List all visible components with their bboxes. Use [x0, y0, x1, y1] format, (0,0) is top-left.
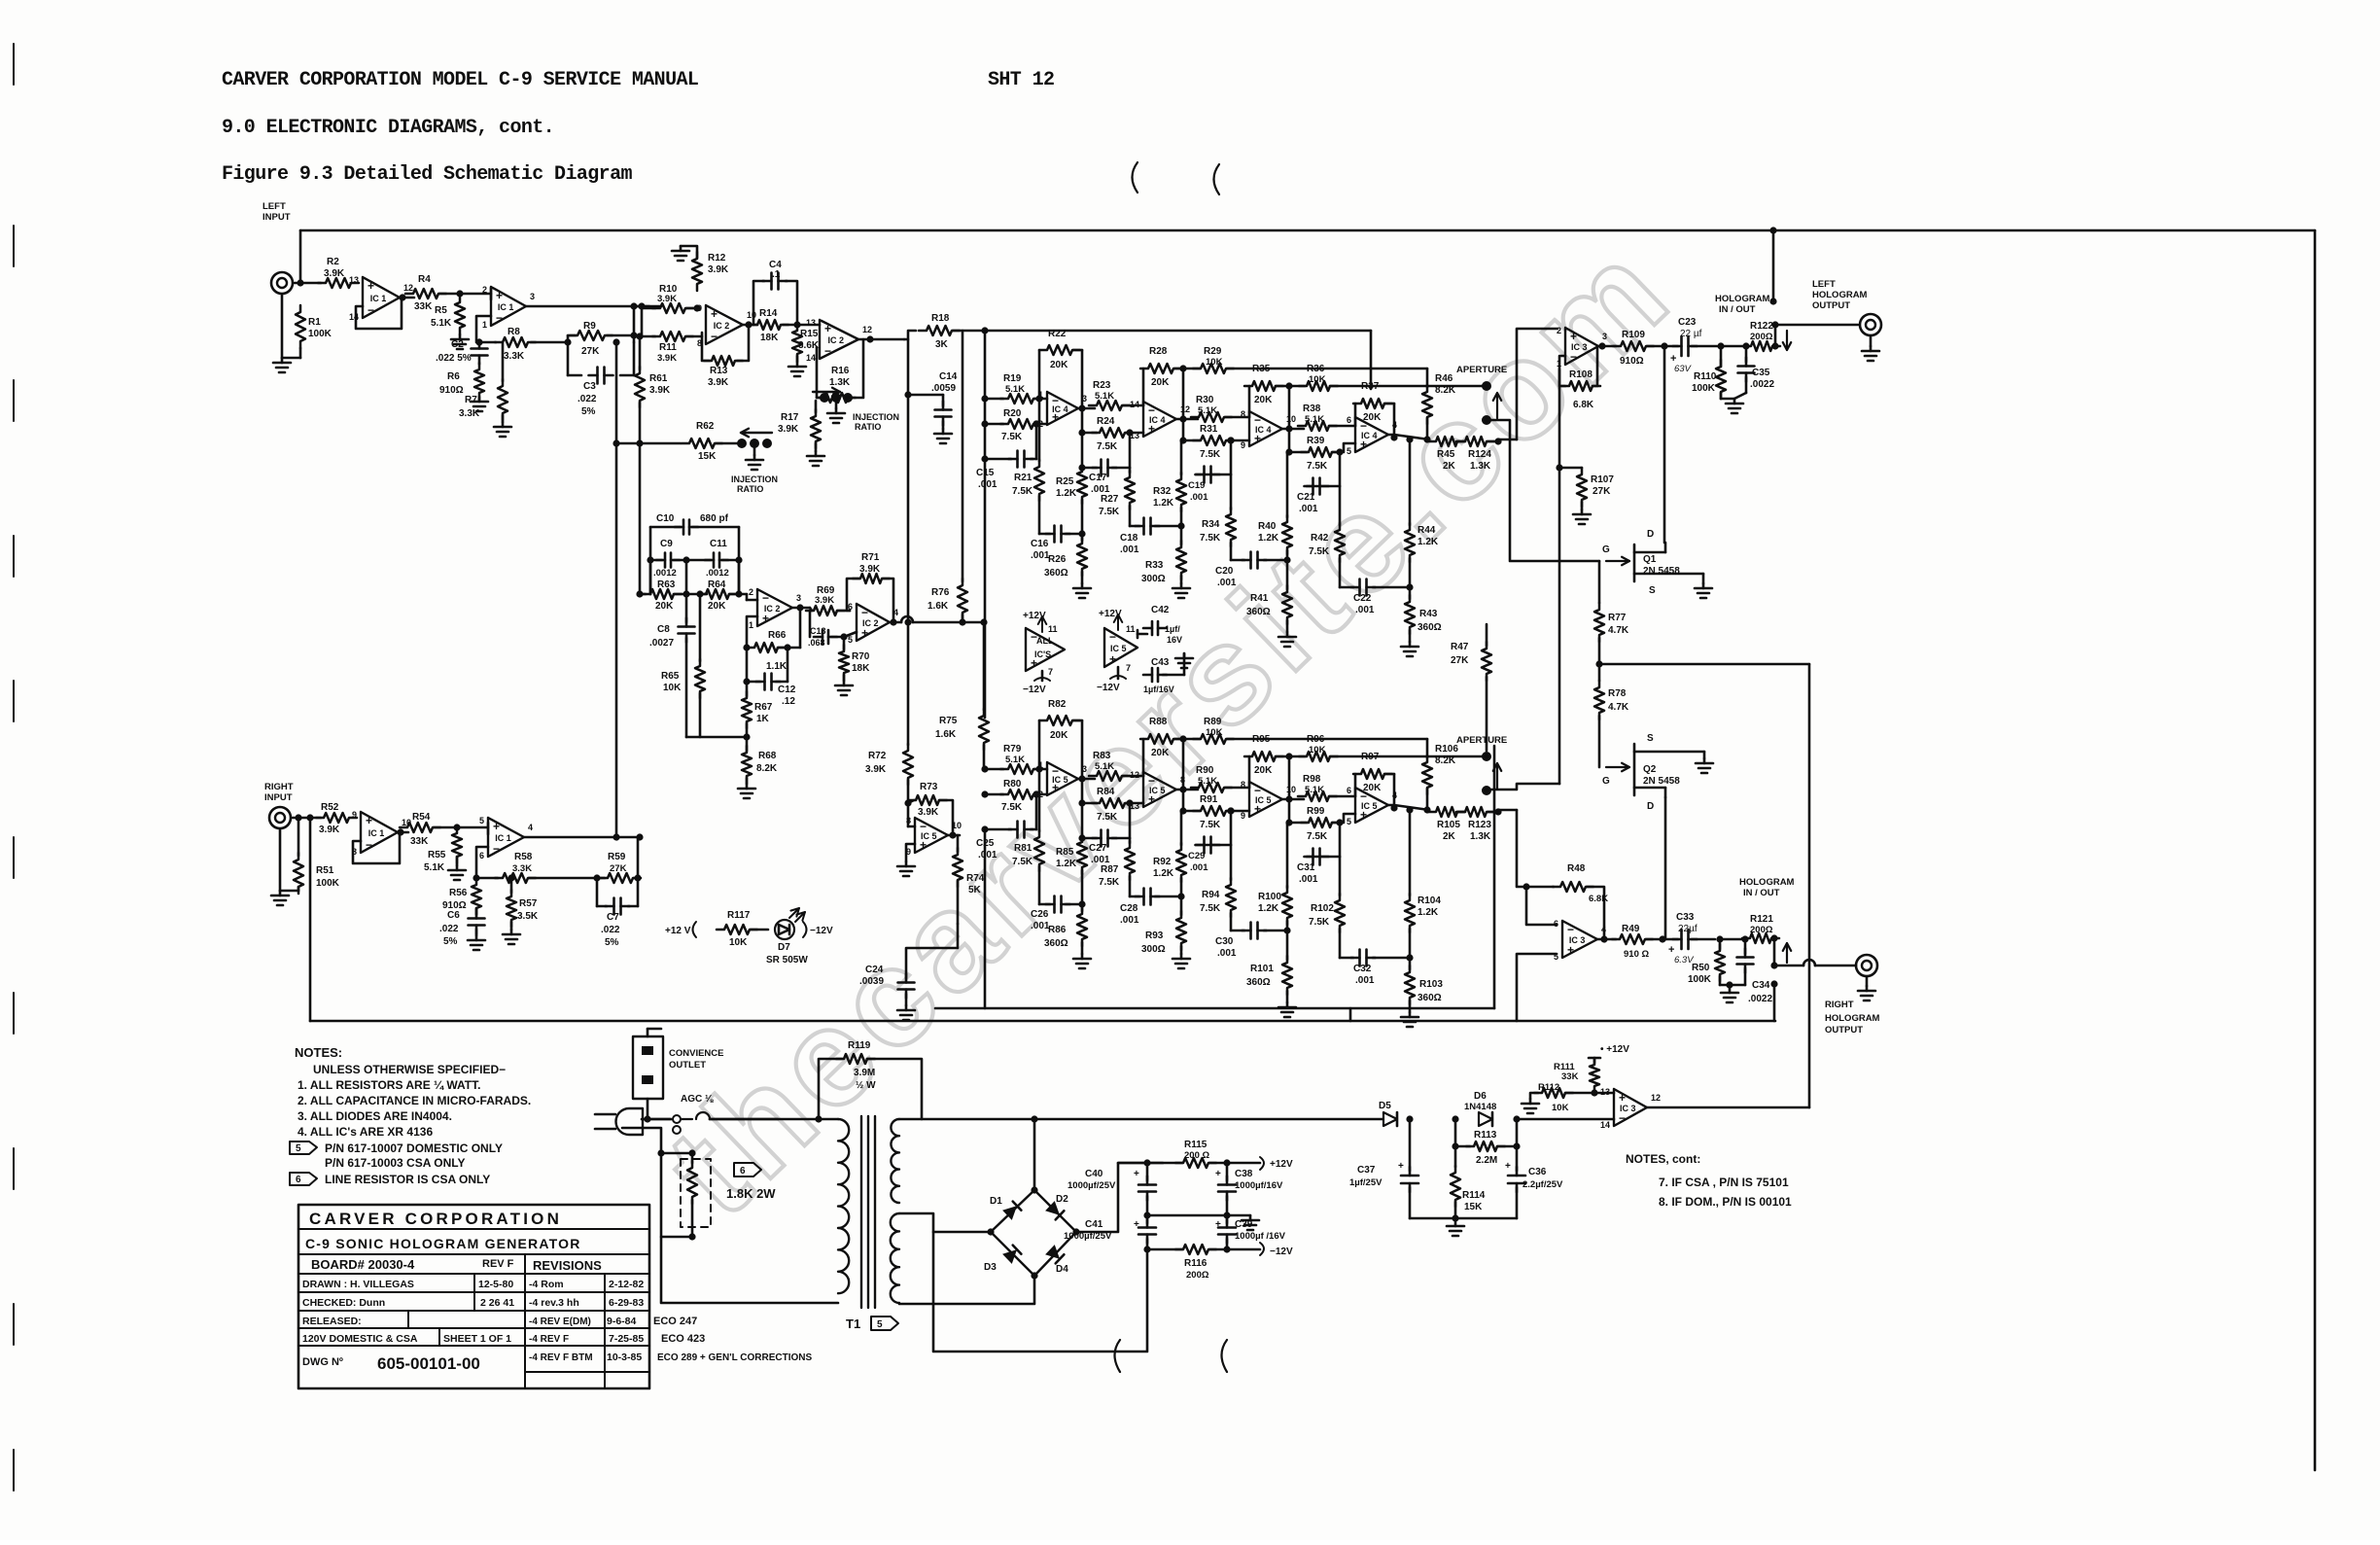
resistor R65 10K — [661, 590, 705, 737]
title block table — [298, 1205, 649, 1388]
resistor R85 1.2K — [1056, 803, 1087, 908]
svg-text:300Ω: 300Ω — [1141, 944, 1166, 955]
svg-text:.001: .001 — [1031, 550, 1050, 561]
svg-text:D1: D1 — [990, 1196, 1002, 1207]
svg-text:1.2K: 1.2K — [1258, 533, 1279, 544]
svg-text:5.1K: 5.1K — [431, 318, 452, 329]
svg-text:D6: D6 — [1474, 1091, 1487, 1102]
svg-text:R37: R37 — [1361, 381, 1380, 392]
svg-text:IC 4: IC 4 — [1052, 404, 1068, 414]
svg-text:1. ALL RESISTORS ARE ¼ WATT.: 1. ALL RESISTORS ARE ¼ WATT. — [297, 1078, 480, 1092]
resistor R67 1K — [742, 682, 773, 737]
svg-text:R121: R121 — [1750, 914, 1773, 925]
svg-text:LEFT: LEFT — [262, 201, 286, 212]
svg-text:.001: .001 — [1299, 504, 1318, 514]
svg-text:910 Ω: 910 Ω — [1624, 949, 1649, 960]
node R121 out — [1770, 934, 1791, 968]
label +12V D7 row — [665, 922, 696, 937]
svg-text:12: 12 — [1130, 770, 1139, 780]
ground R110/C35 — [1721, 393, 1746, 413]
svg-text:IC 2: IC 2 — [828, 335, 845, 345]
svg-text:R49: R49 — [1622, 924, 1640, 934]
wire mid rail — [1143, 1211, 1250, 1218]
resistor R33 300 — [1141, 541, 1186, 584]
svg-text:R103: R103 — [1419, 979, 1443, 990]
wire right input bottom rail — [310, 818, 1775, 1021]
svg-text:R73: R73 — [920, 782, 938, 792]
svg-text:1N4148: 1N4148 — [1464, 1102, 1496, 1112]
resistor R87 7.5K — [1099, 838, 1135, 896]
resistor R73 3.9K feedback — [908, 782, 953, 831]
svg-text:3.9K: 3.9K — [918, 807, 939, 818]
node D6 right — [1513, 1115, 1520, 1122]
svg-text:IC 5: IC 5 — [1110, 644, 1127, 653]
notes line P/N CSA — [325, 1156, 466, 1170]
svg-text:P/N 617-10003 CSA ONLY: P/N 617-10003 CSA ONLY — [325, 1156, 466, 1170]
svg-text:11: 11 — [1048, 624, 1058, 634]
svg-text:HOLOGRAM: HOLOGRAM — [1715, 294, 1770, 304]
svg-text:R101: R101 — [1250, 964, 1274, 974]
svg-text:9.0 ELECTRONIC DIAGRAMS, cont.: 9.0 ELECTRONIC DIAGRAMS, cont. — [222, 117, 554, 139]
node C33/R50 — [1716, 935, 1723, 942]
svg-text:.0012: .0012 — [653, 568, 677, 579]
node R111/R112 — [1591, 1089, 1614, 1096]
svg-text:−: − — [762, 591, 769, 605]
svg-text:3: 3 — [530, 292, 535, 301]
svg-text:C12: C12 — [778, 685, 796, 695]
svg-text:8.2K: 8.2K — [756, 763, 778, 774]
svg-text:13: 13 — [1600, 1087, 1610, 1097]
svg-text:120V DOMESTIC & CSA: 120V DOMESTIC & CSA — [302, 1333, 418, 1345]
resistor R113 2.2M — [1452, 1119, 1520, 1166]
svg-text:4.7K: 4.7K — [1608, 702, 1629, 713]
svg-text:IC 4: IC 4 — [1149, 415, 1166, 425]
op-amp IC1 pin10 stage (right) — [352, 810, 411, 857]
diode D6 1N4148 — [1464, 1091, 1496, 1126]
resistor R68 8.2K — [742, 737, 778, 784]
ground R57 — [503, 930, 520, 944]
wire feedback to right vertical — [1599, 664, 1809, 1107]
svg-text:R15: R15 — [800, 329, 819, 339]
svg-text:C42: C42 — [1151, 605, 1170, 615]
svg-text:7.5K: 7.5K — [1307, 831, 1328, 842]
svg-text:5%: 5% — [443, 936, 458, 947]
svg-text:−: − — [366, 838, 372, 852]
wire cross line x634 — [612, 338, 619, 838]
svg-text:12: 12 — [403, 283, 413, 293]
svg-text:C22: C22 — [1353, 593, 1372, 604]
svg-text:R7: R7 — [465, 395, 477, 405]
svg-text:13: 13 — [349, 275, 359, 285]
op-amp IC 4 stage 2 left bank — [1130, 400, 1190, 440]
resistor R26 360 — [1044, 534, 1087, 583]
node filter input right bank — [981, 765, 988, 832]
svg-text:RATIO: RATIO — [737, 484, 763, 494]
node D6 left — [1452, 1115, 1458, 1122]
svg-text:R81: R81 — [1014, 843, 1032, 854]
svg-text:REV F: REV F — [482, 1258, 514, 1270]
capacitor C33 22uf 6.3V — [1668, 912, 1715, 966]
svg-text:R48: R48 — [1567, 863, 1586, 874]
svg-text:R74: R74 — [966, 873, 985, 884]
svg-text:R62: R62 — [696, 421, 715, 432]
svg-text:R14: R14 — [759, 308, 778, 319]
svg-text:2-12-82: 2-12-82 — [609, 1279, 644, 1290]
svg-text:7.5K: 7.5K — [1099, 507, 1120, 517]
resistor R8 3.3K — [479, 327, 536, 362]
svg-text:T1: T1 — [846, 1317, 860, 1331]
wire hologram in/out drop — [1769, 227, 1776, 301]
svg-text:−: − — [1567, 923, 1574, 936]
svg-text:20K: 20K — [1050, 730, 1068, 741]
svg-text:5.1K: 5.1K — [1005, 755, 1025, 765]
svg-text:+: + — [1134, 1219, 1139, 1230]
svg-text:C18: C18 — [1120, 533, 1138, 544]
resistor R74 5K — [953, 835, 985, 924]
svg-text:½ W: ½ W — [856, 1080, 876, 1091]
wire IC3 power out — [1647, 1106, 1809, 1109]
ground R7 — [494, 422, 511, 437]
svg-text:33K: 33K — [410, 836, 429, 847]
svg-text:RELEASED:: RELEASED: — [302, 1316, 362, 1327]
svg-text:R51: R51 — [316, 865, 334, 876]
resistor R24 7.5K — [1078, 416, 1143, 452]
svg-text:−: − — [496, 311, 503, 325]
svg-text:R52: R52 — [321, 802, 339, 813]
ground R17 — [807, 451, 824, 466]
ground R12 via stub — [672, 246, 697, 261]
svg-text:REVISIONS: REVISIONS — [533, 1258, 602, 1273]
svg-text:C35: C35 — [1752, 368, 1770, 378]
svg-text:18K: 18K — [760, 333, 779, 343]
svg-text:R11: R11 — [659, 342, 677, 353]
resistor R78 4.7K — [1594, 664, 1629, 767]
svg-text:R116: R116 — [1184, 1258, 1207, 1269]
op-amp IC1 pin3 stage (left) — [482, 285, 535, 330]
capacitor C15 .001 — [976, 420, 1040, 490]
svg-text:C26: C26 — [1031, 909, 1049, 920]
svg-text:5K: 5K — [968, 885, 982, 895]
injection ratio switch upper — [813, 388, 899, 432]
capacitor C36 2.2uf/25V — [1505, 1146, 1563, 1218]
svg-text:20K: 20K — [1050, 360, 1068, 370]
resistor R50 100K — [1688, 939, 1730, 985]
capacitor C26 .001 — [1031, 896, 1082, 932]
svg-text:R76: R76 — [931, 587, 950, 598]
svg-text:3K: 3K — [935, 339, 949, 350]
resistor R105 2K — [1428, 807, 1465, 842]
wire R72 node to IC5 pin8 — [908, 803, 915, 826]
svg-text:+: + — [493, 820, 500, 833]
svg-text:14: 14 — [1130, 400, 1139, 409]
capacitor C38 1000uf/16V — [1215, 1163, 1283, 1215]
capacitor C42 1uf/16V — [1137, 605, 1182, 645]
op-amp IC 5 stage 1 right bank — [1038, 760, 1087, 799]
svg-text:7.5K: 7.5K — [1001, 802, 1023, 813]
svg-text:R110: R110 — [1694, 371, 1717, 382]
svg-text:1.3K: 1.3K — [1470, 461, 1491, 472]
svg-text:D: D — [1647, 801, 1654, 812]
svg-text:9: 9 — [1241, 440, 1245, 450]
svg-text:.001: .001 — [1190, 862, 1208, 873]
svg-text:C32: C32 — [1353, 964, 1372, 974]
svg-text:15K: 15K — [698, 451, 717, 462]
svg-text:4.7K: 4.7K — [1608, 625, 1629, 636]
svg-text:1.2K: 1.2K — [1153, 868, 1174, 879]
svg-text:8.2K: 8.2K — [1435, 755, 1456, 766]
svg-text:C33: C33 — [1676, 912, 1695, 923]
ground R26 — [1073, 583, 1091, 598]
title text BOARD# REVISIONS — [311, 1257, 602, 1273]
resistor R41 360 — [1246, 560, 1292, 632]
svg-text:1: 1 — [482, 320, 487, 330]
node RIGHT INPUT label — [264, 782, 294, 803]
svg-text:R20: R20 — [1003, 408, 1022, 419]
resistor R86 360 — [1044, 904, 1087, 954]
svg-text:3.9K: 3.9K — [708, 377, 729, 388]
svg-text:100K: 100K — [1688, 974, 1712, 985]
svg-text:1000µf/25V: 1000µf/25V — [1064, 1231, 1112, 1242]
capacitor C23 22uf 63V — [1670, 317, 1717, 374]
svg-text:200Ω: 200Ω — [1750, 925, 1773, 935]
svg-text:IC 3: IC 3 — [1620, 1104, 1636, 1113]
eco 423 note — [661, 1333, 705, 1345]
svg-text:R39: R39 — [1307, 436, 1325, 446]
resistor R21 7.5K — [1012, 399, 1044, 534]
wire pin1 column down — [1491, 369, 1559, 790]
svg-text:C21: C21 — [1297, 492, 1315, 503]
svg-text:−12V: −12V — [1270, 1247, 1293, 1257]
svg-text:7.5K: 7.5K — [1309, 917, 1330, 928]
resistor R40 1.2K — [1258, 452, 1292, 560]
wire right bank s1 out — [1078, 775, 1095, 803]
svg-text:+: + — [711, 307, 717, 321]
svg-text:D: D — [1647, 529, 1654, 540]
svg-text:CARVER CORPORATION: CARVER CORPORATION — [309, 1210, 562, 1228]
capacitor C22 .001 — [1340, 579, 1414, 616]
svg-text:R29: R29 — [1204, 346, 1222, 357]
svg-text:C10: C10 — [656, 513, 675, 524]
capacitor C3 .022 5% — [568, 342, 634, 417]
svg-text:15K: 15K — [1464, 1202, 1483, 1212]
svg-text:C3: C3 — [583, 381, 596, 392]
svg-text:3.9M: 3.9M — [854, 1068, 875, 1078]
svg-text:20K: 20K — [655, 601, 674, 612]
node R4/R5 — [456, 290, 463, 297]
svg-text:G: G — [1602, 544, 1610, 555]
resistor R109 910 — [1613, 330, 1678, 367]
svg-text:R19: R19 — [1003, 373, 1022, 384]
wire left bank s3 out — [1282, 386, 1304, 456]
svg-text:IC 1: IC 1 — [495, 833, 511, 843]
node hologram in/out left — [1715, 294, 1777, 315]
resistor R97 20K feedback — [1353, 752, 1394, 805]
svg-text:.068: .068 — [808, 638, 825, 648]
svg-text:R72: R72 — [868, 751, 887, 761]
svg-text:910Ω: 910Ω — [439, 385, 464, 396]
svg-text:3: 3 — [796, 593, 801, 603]
right page border wire — [2314, 230, 2317, 1470]
svg-text:10-3-85: 10-3-85 — [607, 1352, 642, 1363]
ground R86 — [1073, 954, 1091, 968]
resistor R95 20K feedback — [1244, 734, 1289, 788]
resistor R91 7.5K — [1183, 794, 1249, 830]
ground R50/C34 — [1721, 988, 1738, 1002]
svg-text:C20: C20 — [1215, 566, 1234, 577]
svg-text:3.3K: 3.3K — [512, 863, 532, 874]
notes line 1 resistors — [297, 1078, 480, 1092]
svg-text:3.9K: 3.9K — [778, 424, 799, 435]
ground power rail — [1447, 1221, 1464, 1236]
capacitor C29 .001 — [1188, 807, 1235, 873]
svg-text:5.1K: 5.1K — [1305, 414, 1324, 425]
svg-text:1.2K: 1.2K — [1056, 859, 1077, 869]
svg-text:4: 4 — [1392, 790, 1397, 800]
svg-text:680 pf: 680 pf — [700, 513, 729, 524]
op-amp IC 4 stage 3 left bank — [1241, 409, 1296, 450]
svg-text:2K: 2K — [1443, 831, 1456, 842]
svg-text:8.2K: 8.2K — [1435, 385, 1456, 396]
svg-text:ALL: ALL — [1036, 636, 1054, 646]
svg-text:5.1K: 5.1K — [1005, 384, 1025, 395]
wire C9/C11 row verticals — [650, 560, 739, 594]
resistor R116 200 — [1147, 1245, 1260, 1281]
ground R6 — [471, 397, 488, 411]
svg-text:S: S — [1649, 585, 1656, 596]
title row 120V DOMESTIC — [302, 1333, 644, 1345]
wire left bank s2 out — [1176, 369, 1198, 444]
svg-text:+: + — [367, 279, 374, 293]
svg-text:6: 6 — [479, 851, 484, 860]
ground Q2 source — [1696, 752, 1713, 773]
svg-text:R64: R64 — [708, 579, 726, 590]
title row CHECKED — [302, 1297, 644, 1309]
svg-text:R100: R100 — [1258, 892, 1281, 902]
svg-text:IC 1: IC 1 — [368, 828, 385, 838]
capacitor C41 1000uf/25V — [1064, 1215, 1156, 1253]
label T1 — [846, 1317, 860, 1331]
op-amp IC5 power pins — [1097, 609, 1137, 693]
injection ratio switch lower — [731, 429, 778, 494]
capacitor C18 .001 — [1120, 518, 1185, 556]
svg-text:3.9K: 3.9K — [815, 595, 834, 606]
eco 247 note — [653, 1316, 697, 1327]
svg-text:C28: C28 — [1120, 903, 1138, 914]
wire block bottom — [686, 733, 751, 740]
svg-text:10K: 10K — [729, 937, 748, 948]
svg-text:R2: R2 — [327, 257, 339, 267]
svg-text:6-29-83: 6-29-83 — [609, 1297, 644, 1309]
node C6/R58 — [472, 874, 479, 881]
svg-text:4: 4 — [528, 823, 533, 832]
svg-text:10K: 10K — [1309, 745, 1326, 755]
ground R107 — [1573, 509, 1591, 524]
svg-text:R88: R88 — [1149, 717, 1168, 727]
svg-text:HOLOGRAM: HOLOGRAM — [1812, 290, 1868, 300]
resistor R115 200 — [1118, 1140, 1260, 1168]
svg-text:6: 6 — [1554, 919, 1558, 929]
resistor R122 200 — [1743, 321, 1780, 351]
notes line 3 diodes — [297, 1109, 452, 1123]
wire lower box bottom — [935, 1007, 1494, 1010]
svg-text:9: 9 — [352, 810, 357, 820]
svg-text:+: + — [1567, 943, 1574, 957]
svg-text:.001: .001 — [1217, 948, 1237, 959]
node filter input left bank — [981, 395, 988, 462]
wire bridge right rail — [1076, 1163, 1163, 1232]
svg-text:9: 9 — [1241, 811, 1245, 821]
svg-text:R4: R4 — [418, 274, 431, 285]
wire bank out to IC3a pin2 — [1498, 329, 1557, 439]
label -12V rail — [1260, 1243, 1293, 1257]
resistor R111 33K — [1554, 1058, 1599, 1093]
svg-text:7.5K: 7.5K — [1001, 432, 1023, 442]
notes flag 6 — [290, 1173, 490, 1186]
resistor R98 5.1K — [1298, 774, 1355, 801]
resistor R93 300 — [1141, 911, 1186, 955]
wire left column to box bottom — [984, 831, 987, 1008]
svg-text:R28: R28 — [1149, 346, 1168, 357]
svg-text:5: 5 — [1347, 817, 1351, 826]
capacitor C8 .0027 — [649, 594, 695, 737]
svg-text:.022: .022 — [577, 394, 597, 404]
svg-text:-4 REV F BTM: -4 REV F BTM — [529, 1352, 593, 1363]
svg-text:C7: C7 — [607, 912, 619, 923]
svg-text:C41: C41 — [1085, 1219, 1103, 1230]
wire D6 to IC3 pin14 — [1517, 1118, 1614, 1121]
resistor R1 100K — [282, 305, 332, 358]
svg-text:.12: .12 — [782, 696, 795, 707]
svg-text:R78: R78 — [1608, 688, 1627, 699]
svg-text:APERTURE: APERTURE — [1456, 365, 1507, 375]
wire C14 stub and R72 column — [904, 339, 943, 622]
svg-text:6.8K: 6.8K — [1573, 400, 1594, 410]
svg-text:BOARD# 20030-4: BOARD# 20030-4 — [311, 1257, 415, 1272]
svg-text:.0022: .0022 — [1750, 379, 1774, 390]
svg-text:R25: R25 — [1056, 476, 1074, 487]
convenience outlet symbol — [633, 1029, 663, 1119]
ground mid rail — [1242, 1215, 1259, 1230]
op-amp IC 4 stage 4 left bank — [1347, 415, 1397, 456]
ground R41 — [1278, 632, 1296, 647]
resistor R6 910 — [439, 363, 484, 400]
svg-text:C2: C2 — [451, 339, 464, 350]
resistor R4 33K — [405, 274, 457, 312]
top bus wire (left channel loop) — [300, 229, 2315, 232]
resistor R89 10K — [1179, 717, 1427, 744]
resistor R46 8.2K — [1422, 369, 1456, 443]
node APERTURE right bank — [1456, 735, 1507, 795]
svg-text:C43: C43 — [1151, 657, 1170, 668]
svg-text:IC 1: IC 1 — [370, 294, 387, 303]
node R10/R12 — [693, 304, 700, 311]
svg-text:C34: C34 — [1752, 980, 1770, 991]
resistor R30 5.1K — [1191, 395, 1249, 422]
node R77/R78 — [1595, 660, 1602, 667]
svg-text:5.1K: 5.1K — [1095, 761, 1114, 772]
svg-text:R26: R26 — [1048, 554, 1067, 565]
wire box bottom to rail stub — [1349, 1008, 1352, 1021]
svg-text:R8: R8 — [507, 327, 520, 337]
svg-text:RIGHT: RIGHT — [1825, 1000, 1854, 1010]
svg-text:C13: C13 — [810, 626, 826, 636]
svg-text:D4: D4 — [1056, 1264, 1068, 1275]
resistor R51 100K — [294, 818, 340, 894]
resistor R14 18K — [750, 308, 820, 343]
svg-text:.001: .001 — [978, 850, 997, 860]
svg-text:.0059: .0059 — [931, 383, 956, 394]
svg-text:3.9K: 3.9K — [657, 353, 677, 364]
